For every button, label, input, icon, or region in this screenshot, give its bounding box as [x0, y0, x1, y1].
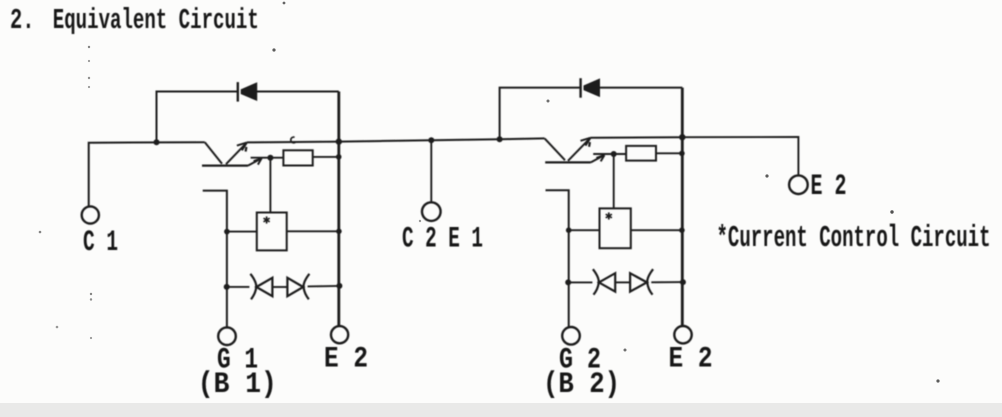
wire top loop left (diode branch, right block)	[500, 88, 581, 140]
node: collector / diode-branch junction	[154, 139, 160, 145]
diode D1 (anti-parallel, left block)	[238, 82, 257, 102]
node: gate-zener junction	[224, 284, 230, 290]
wire control box left (right block)	[569, 229, 600, 231]
wire top loop left (diode branch)	[157, 92, 238, 143]
node: gate-control junction (right)	[566, 227, 572, 233]
svg-text:E 2: E 2	[324, 342, 368, 376]
terminal E2 (right block)	[674, 326, 691, 343]
E2 bus rail (left block)	[337, 92, 340, 327]
terminal E2 (left block)	[331, 326, 348, 343]
wire resistor R2 to E2 bus	[656, 152, 682, 154]
wire gate rail (right block)	[593, 153, 626, 155]
wire control box right to E2 bus (right block)	[631, 229, 683, 231]
terminal G2	[562, 327, 580, 345]
node: control-bus junction (right)	[679, 227, 685, 233]
node: resistor-bus junction	[336, 154, 342, 160]
wire zener to E2 bus	[308, 285, 340, 288]
wire gate rail	[251, 157, 284, 159]
wire top loop right (right block)	[600, 87, 683, 89]
wire C2E1 stub	[430, 140, 432, 202]
transistor Q1 (left block)	[202, 142, 262, 165]
E2 bus rail (right block)	[681, 88, 684, 326]
scan artifact c-mark on emitter wire	[291, 137, 296, 143]
terminal C2E1	[422, 202, 441, 221]
label C2E1	[402, 223, 483, 257]
control circuit box U2 (right block)	[600, 208, 631, 248]
wire control box left	[227, 231, 257, 233]
wire resistor R1 to E2 bus	[313, 156, 339, 158]
label E2 (top right)	[811, 170, 847, 204]
label E2 (left block)	[324, 342, 368, 376]
wire C1 riser and collector rail	[89, 142, 205, 206]
transistor Q2 (right block)	[545, 138, 605, 163]
label G2	[559, 343, 601, 377]
diode D2 (anti-parallel, right block)	[581, 78, 600, 98]
svg-text:(B 1): (B 1)	[198, 368, 277, 402]
node: control-bus junction	[336, 229, 342, 235]
control circuit box U1 (left block)	[257, 213, 287, 251]
node: gate junction (right)	[611, 151, 617, 157]
node: emitter-bus junction	[336, 138, 342, 144]
label C1	[83, 226, 118, 260]
wire top loop right	[257, 91, 339, 93]
svg-text:Equivalent Circuit: Equivalent Circuit	[53, 4, 259, 37]
terminal G1	[218, 327, 236, 345]
title "2. Equivalent Circuit"	[10, 4, 259, 37]
svg-text:C 2 E 1: C 2 E 1	[402, 223, 483, 257]
svg-text:(B 2): (B 2)	[543, 368, 620, 402]
node: resistor-bus junction (right)	[679, 151, 685, 157]
svg-text:E 2: E 2	[811, 170, 847, 204]
node: zener-bus junction (right)	[680, 279, 686, 285]
wire emitter to E2 bus	[247, 141, 339, 144]
label E2 (right block)	[669, 342, 713, 376]
wire bus to top-right E2 terminal	[682, 137, 798, 175]
wire zener to E2 bus (right block)	[651, 281, 683, 283]
label G1	[217, 343, 258, 377]
svg-text:C 1: C 1	[83, 226, 118, 260]
terminal C1	[82, 206, 99, 223]
svg-text:2.: 2.	[10, 4, 35, 37]
wire gate to control box	[269, 158, 271, 213]
resistor R2 (gate resistor, right block)	[626, 146, 656, 161]
wire main rail between blocks	[339, 138, 545, 141]
svg-text:*Current Control Circuit: *Current Control Circuit	[717, 221, 991, 256]
wire control box right to E2 bus	[287, 230, 339, 232]
wire gate lead G1 (L-stub and riser)	[203, 191, 227, 328]
wire gate lead G2 (L-stub and riser)	[546, 190, 569, 327]
note: *Current Control Circuit	[717, 221, 991, 256]
node: collector / diode-branch junction (right)	[497, 136, 503, 142]
node: gate junction	[267, 155, 273, 161]
node: zener-bus junction	[336, 283, 342, 289]
wire zener branch left (right block)	[568, 281, 592, 283]
wire gate to control box (right block)	[613, 154, 615, 208]
resistor R1 (gate resistor, left block)	[283, 150, 312, 165]
node: gate-zener junction (right)	[565, 279, 571, 285]
terminal E2 (top right)	[789, 175, 808, 194]
node: gate-control junction	[224, 229, 230, 235]
zener diode pair ZD2 (gate protection, right block)	[593, 269, 653, 295]
label (B2)	[543, 368, 620, 402]
node: C2E1 junction	[428, 137, 434, 143]
wire zener branch left	[227, 286, 250, 288]
svg-text:E 2: E 2	[669, 342, 713, 376]
wire emitter to E2 bus (right block)	[590, 136, 682, 139]
label (B1)	[198, 368, 277, 402]
node: emitter-bus junction (right)	[679, 134, 685, 140]
zener diode pair ZD1 (gate protection, left block)	[250, 274, 309, 300]
